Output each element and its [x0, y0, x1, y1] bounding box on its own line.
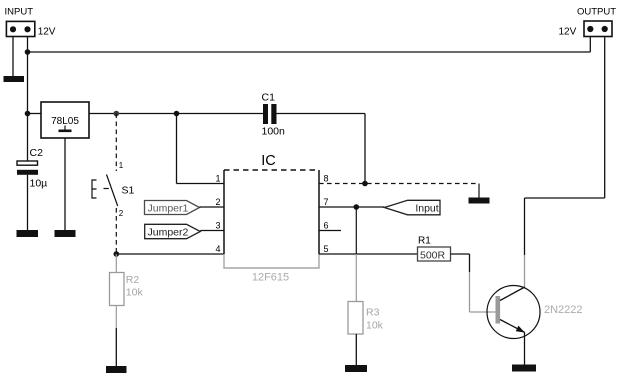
terminal pin input left: [10, 26, 16, 32]
wire R1 down gray: [469, 272, 471, 312]
resistor R3 body: [348, 302, 363, 335]
switch S1 actuator link dash: [104, 188, 109, 190]
svg-text:2: 2: [215, 197, 220, 207]
svg-text:1: 1: [119, 161, 124, 170]
IC top edge dashed: [224, 169, 319, 171]
wire pin7 down to R3 gray: [355, 254, 357, 302]
connector J2 OUTPUT box: [584, 21, 612, 37]
capacitor C2 bottom plate: [17, 170, 38, 175]
wire IC pin 7: [319, 206, 384, 208]
svg-text:12V: 12V: [559, 27, 577, 38]
capacitor C2 top plate: [17, 161, 38, 165]
flag Jumper1: [145, 201, 200, 215]
ground under C2: [17, 230, 39, 237]
svg-text:INPUT: INPUT: [5, 7, 34, 18]
terminal pin input right: [24, 26, 30, 32]
node junction pin1 drop: [174, 111, 180, 117]
wire C1 corner down to pin8 net: [364, 114, 366, 184]
svg-text:4: 4: [215, 244, 220, 254]
switch S1 actuator bracket: [92, 180, 97, 198]
svg-text:5: 5: [324, 244, 329, 254]
wire input right terminal down: [27, 37, 29, 114]
wire above R2 gray: [115, 254, 117, 273]
capacitor C1 left plate: [263, 104, 268, 124]
wire 5V rail from regulator: [89, 113, 265, 115]
wire output left terminal to rail: [589, 37, 591, 53]
wire collector horizontal: [525, 197, 605, 199]
node junction pin7 R3: [354, 204, 360, 210]
svg-text:Jumper2: Jumper2: [148, 226, 189, 238]
wire to IC pin 1: [177, 183, 225, 185]
node junction pin8 C1: [362, 181, 368, 187]
ground under 78L05: [55, 230, 76, 237]
capacitor C1 right plate: [271, 104, 276, 124]
resistor R1 body: [418, 247, 451, 261]
terminal pin output left: [587, 26, 593, 32]
svg-text:12V: 12V: [38, 27, 56, 38]
flag Jumper2: [145, 224, 201, 238]
transistor Q1 emitter diagonal: [500, 320, 525, 333]
svg-text:Input: Input: [415, 203, 438, 215]
ground under R2: [106, 366, 127, 373]
node junction input to regulator: [25, 111, 31, 117]
wire down to C2: [27, 114, 29, 162]
wire IC pin 6 stub: [319, 230, 341, 232]
svg-text:2N2222: 2N2222: [544, 304, 583, 316]
IC body gray lower part: [224, 254, 319, 268]
wire below R2 gray: [115, 306, 117, 329]
connector J1 INPUT box: [6, 21, 34, 36]
wire pin8 to ground drop: [478, 184, 480, 198]
wire collector vertical black: [524, 198, 526, 255]
wire C2 to ground: [27, 175, 29, 230]
wire to IC pin 2: [200, 206, 225, 208]
wire output right terminal down: [604, 37, 606, 199]
wire IC pin 5: [319, 253, 418, 255]
svg-text:IC: IC: [261, 153, 276, 169]
wire pin1 vertical drop: [176, 114, 178, 184]
svg-text:100n: 100n: [262, 126, 286, 138]
wire R1 out: [451, 253, 470, 255]
wire collector vertical gray: [524, 255, 526, 288]
wire to IC pin 3: [200, 230, 224, 232]
regulator internal ground stub: [64, 126, 66, 130]
svg-text:10µ: 10µ: [30, 178, 48, 190]
flag Input: [384, 200, 440, 215]
ground input: [4, 76, 25, 82]
transistor Q1 emitter arrow: [516, 326, 525, 333]
svg-text:R1: R1: [418, 236, 431, 247]
wire into 78L05: [28, 113, 42, 115]
svg-text:1: 1: [215, 174, 220, 184]
svg-text:R2: R2: [126, 274, 140, 286]
wire to IC pin 4: [116, 253, 224, 255]
svg-text:2: 2: [119, 209, 124, 218]
svg-text:3: 3: [215, 221, 220, 231]
switch S1 dashed wire lower: [115, 208, 117, 254]
svg-text:R3: R3: [366, 307, 380, 319]
wire below R3 black: [355, 334, 357, 365]
wire input left terminal to ground: [12, 37, 14, 77]
svg-text:78L05: 78L05: [51, 116, 79, 127]
terminal pin output right: [602, 26, 608, 32]
svg-text:7: 7: [324, 197, 329, 207]
transistor Q1 collector diagonal: [500, 287, 525, 301]
svg-text:12F615: 12F615: [252, 272, 289, 284]
wire emitter down: [524, 333, 526, 365]
svg-text:OUTPUT: OUTPUT: [577, 7, 616, 18]
svg-text:C2: C2: [30, 147, 44, 159]
svg-text:Jumper1: Jumper1: [148, 202, 189, 214]
ground under emitter: [512, 365, 536, 372]
op IC 12F615 body black part: [224, 170, 319, 254]
node junction pin4 R2 S1: [114, 251, 120, 257]
wire below R2 black: [115, 328, 117, 366]
svg-text:10k: 10k: [366, 320, 384, 332]
ground pin8: [469, 198, 490, 204]
wire base gray: [470, 311, 496, 313]
transistor Q1 base bar gray: [496, 296, 501, 324]
node junction S1 top: [114, 111, 120, 117]
switch S1 dashed wire upper: [115, 114, 117, 172]
svg-text:10k: 10k: [126, 287, 144, 299]
regulator 78L05 box: [41, 102, 89, 138]
svg-text:500R: 500R: [420, 250, 446, 262]
wire IC pin 8 dashed: [319, 183, 479, 185]
node junction 12V rail: [25, 49, 31, 55]
regulator internal ground bar: [59, 130, 72, 133]
svg-text:S1: S1: [122, 185, 135, 197]
svg-text:C1: C1: [262, 92, 276, 104]
wire R1 down black: [469, 254, 471, 272]
ground under R3: [345, 365, 367, 372]
wire C1 to corner: [277, 113, 366, 115]
wire 12V rail top: [28, 51, 591, 53]
wire pin7 down to R3 black: [355, 207, 357, 254]
transistor Q1 circle: [487, 286, 540, 339]
wire 78L05 gnd pin down: [64, 138, 66, 230]
switch S1 lever: [107, 175, 118, 207]
resistor R2 body: [110, 273, 125, 306]
svg-text:6: 6: [324, 221, 329, 231]
svg-text:8: 8: [324, 174, 329, 184]
